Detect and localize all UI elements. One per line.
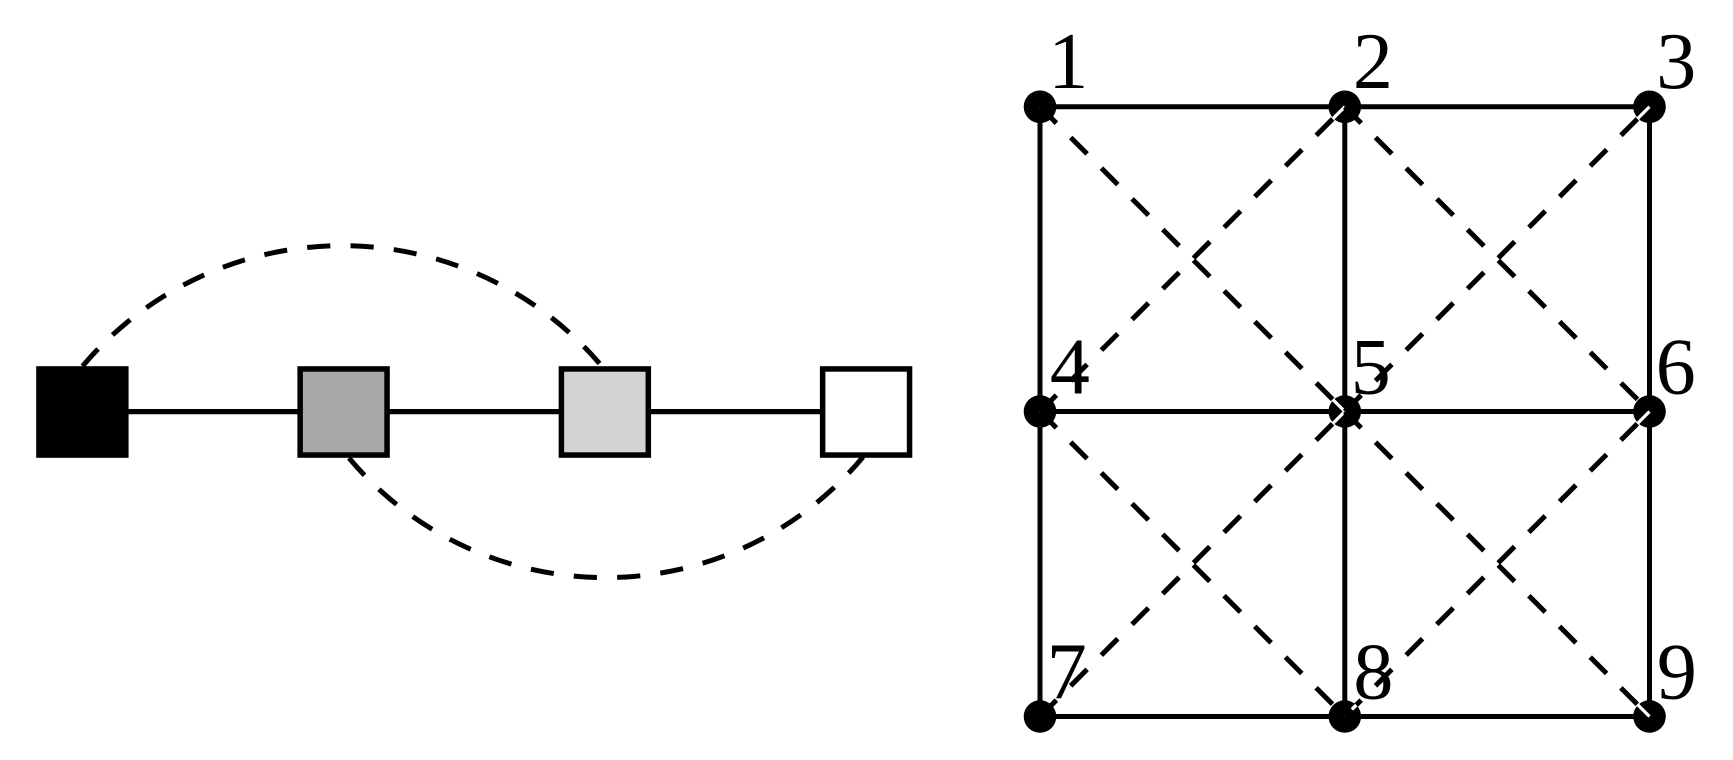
svg-text:1: 1 (1048, 18, 1088, 106)
svg-text:5: 5 (1351, 324, 1391, 412)
svg-text:8: 8 (1353, 629, 1393, 717)
svg-text:7: 7 (1047, 629, 1087, 717)
svg-text:6: 6 (1656, 324, 1696, 412)
svg-text:4: 4 (1050, 324, 1090, 412)
svg-text:9: 9 (1657, 629, 1697, 717)
svg-text:3: 3 (1656, 18, 1696, 106)
svg-text:2: 2 (1353, 18, 1393, 106)
